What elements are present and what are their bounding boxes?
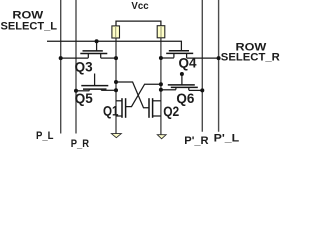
svg-text:SELECT_L: SELECT_L (1, 20, 58, 32)
svg-text:P'_L: P'_L (214, 132, 240, 144)
svg-text:P'_R: P'_R (184, 135, 208, 147)
svg-text:Q6: Q6 (176, 91, 194, 106)
svg-text:Q5: Q5 (75, 91, 94, 106)
svg-text:Q4: Q4 (179, 55, 198, 70)
svg-text:P_R: P_R (71, 138, 89, 150)
svg-text:Vcc: Vcc (131, 1, 148, 12)
svg-text:Q3: Q3 (75, 59, 93, 74)
svg-text:SELECT_R: SELECT_R (221, 52, 280, 64)
svg-text:Q1: Q1 (103, 103, 119, 118)
svg-text:P_L: P_L (36, 130, 54, 142)
